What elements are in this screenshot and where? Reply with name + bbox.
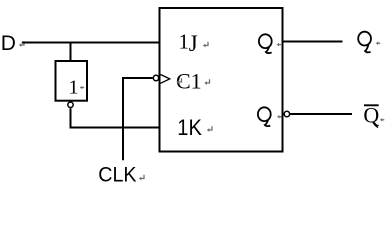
svg-text:D: D: [1, 32, 16, 55]
wire D input: [22, 42, 160, 44]
left arrow mark after bottom inside Q: [277, 115, 281, 119]
inversion bubble at Q-bar output: [284, 111, 289, 116]
flip-flop body U1: [160, 8, 283, 152]
svg-text:1: 1: [69, 77, 79, 99]
pin label Q (top, inside): [259, 34, 272, 53]
wire inverter output to 1K input: [71, 108, 160, 127]
return mark after D: [19, 41, 24, 47]
left arrow mark after 1: [80, 86, 84, 90]
inverter output bubble: [68, 102, 73, 107]
wire Q output (top): [284, 41, 343, 43]
return mark after C1: [204, 79, 209, 85]
svg-text:CLK: CLK: [98, 164, 136, 187]
return mark after 1K: [207, 126, 212, 132]
svg-text:1K: 1K: [177, 115, 202, 140]
return mark after 1J: [203, 42, 208, 48]
svg-text:C1: C1: [176, 68, 202, 93]
wire Q-bar output (bottom): [290, 113, 352, 115]
wire junction drop to inverter: [70, 43, 72, 62]
svg-text:1: 1: [179, 29, 190, 53]
left arrow mark after top inside Q: [277, 43, 281, 47]
left arrow mark after output Q: [376, 41, 380, 45]
Q-bar tail extension: [374, 123, 378, 127]
pin label Q (bottom, inside): [258, 107, 271, 126]
overline of Q-bar: [364, 104, 379, 106]
clock inversion bubble at C1: [153, 75, 158, 80]
wire CLK vertical: [123, 78, 153, 160]
svg-text:J: J: [189, 31, 198, 56]
return mark before C1: [176, 78, 181, 84]
return mark after CLK: [139, 175, 144, 181]
edge-trigger chevron at C1: [161, 75, 170, 84]
label Q (output, right top): [358, 32, 371, 53]
inverter box (1): [56, 61, 88, 101]
left arrow mark after Q-bar: [380, 118, 384, 122]
